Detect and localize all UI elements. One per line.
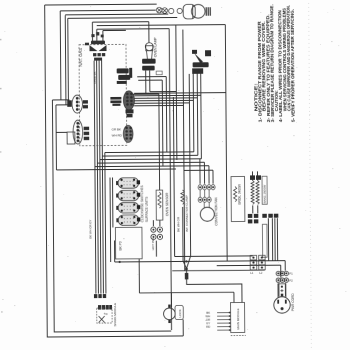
box below switches <box>115 227 142 259</box>
svg-text:PWR CORD: PWR CORD <box>291 293 295 311</box>
resistor zigzag <box>158 192 161 208</box>
terminal bars right of plug <box>206 7 210 16</box>
plug body top right <box>183 4 205 19</box>
wire inner loop <box>52 99 171 332</box>
svg-text:SURFACE UNITS: SURFACE UNITS <box>145 197 149 223</box>
svg-text:WH RD: WH RD <box>112 133 123 137</box>
bundle connector row bottom <box>94 294 106 298</box>
center switch cluster small <box>110 97 121 106</box>
spark module top row <box>98 305 112 310</box>
svg-text:P2: P2 <box>289 279 293 283</box>
bake terminals <box>250 175 261 180</box>
gas valve cluster top center <box>85 32 107 61</box>
svg-text:OVEN SENSOR: OVEN SENSOR <box>165 192 169 216</box>
burner switch 3 <box>118 202 139 213</box>
wire right side drops <box>268 218 277 261</box>
burner switch 1 <box>118 178 139 189</box>
burner switch 2 <box>118 190 139 201</box>
bake element zigzags <box>251 180 259 204</box>
svg-text:CLOCKWISE SWITCHES: CLOCKWISE SWITCHES <box>140 185 144 222</box>
wire latch motor <box>171 293 183 336</box>
wire power cord leads <box>279 283 286 296</box>
left connector oval 1 <box>72 95 83 113</box>
terminal stack B <box>259 255 266 270</box>
svg-text:LOCK: LOCK <box>178 309 182 317</box>
bake label box <box>262 176 267 204</box>
wire fan links <box>200 190 209 208</box>
oven lamp <box>145 43 153 59</box>
pin labels <box>205 311 210 329</box>
wire long bottom link <box>139 258 234 303</box>
wire right verticals <box>158 25 202 330</box>
wire bake stubs <box>252 171 257 213</box>
indicator lights pair 1 <box>151 227 163 240</box>
wire mid-left horizontals <box>52 100 69 133</box>
burner switch terminals and contact dots <box>116 181 118 185</box>
wire top nested lines <box>92 21 225 43</box>
svg-text:INT. CONNECTOR CLAMP: INT. CONNECTOR CLAMP <box>185 195 189 232</box>
cord grommet box <box>278 284 286 297</box>
wire terminal corners <box>281 261 286 278</box>
wire console box <box>225 25 227 261</box>
oven sensor zigzag left center <box>181 190 185 204</box>
fuse on wire <box>185 273 188 279</box>
burner switch 4 <box>118 215 139 226</box>
terminal stack A <box>250 255 257 270</box>
svg-text:OVEN LAMP: OVEN LAMP <box>153 37 157 58</box>
convection fan circle <box>200 207 214 221</box>
svg-text:+o: +o <box>104 312 108 316</box>
svg-text:5- VERIFY PROPER OPERATION AFT: 5- VERIFY PROPER OPERATION AFTER SERVICI… <box>290 9 296 122</box>
svg-text:BROIL 3400W: BROIL 3400W <box>238 184 242 204</box>
wire sensor drop funnel <box>183 206 242 302</box>
spark module dashed box <box>97 308 112 323</box>
svg-text:MAIN MODULE: MAIN MODULE <box>236 308 240 329</box>
convection fan ovals row2 <box>198 197 211 202</box>
wire left verticals <box>55 11 69 170</box>
wire outer border <box>45 4 184 337</box>
scan artifact dotted line right <box>309 0 312 349</box>
svg-text:CONVECTION FAN: CONVECTION FAN <box>214 197 218 226</box>
cord oval row 2 <box>276 278 288 282</box>
spark module marks <box>99 316 105 323</box>
center cluster 2 <box>123 125 133 142</box>
svg-text:RD: RD <box>206 325 210 329</box>
dashed box WT GAS <box>79 44 127 145</box>
left connector oval 2 <box>67 120 83 144</box>
wire top bus lines <box>60 10 177 18</box>
broil zigzag <box>233 187 236 202</box>
svg-text:HOT IND: HOT IND <box>151 237 155 250</box>
svg-text:BAKE 2500W: BAKE 2500W <box>263 185 267 204</box>
latch motor circle <box>164 308 176 320</box>
wire bundle verticals <box>94 60 113 293</box>
convection fan ovals row1 <box>198 185 215 190</box>
cord oval row 1 <box>276 271 288 275</box>
center big cluster (selector) <box>123 91 134 110</box>
wire cluster fanout right <box>134 93 226 106</box>
wire lamp drops <box>130 70 176 94</box>
scan specks left edge <box>0 39 4 313</box>
svg-text:L2: L2 <box>259 271 263 275</box>
broil box tall <box>231 176 245 221</box>
twist connectors top right <box>156 7 182 14</box>
dashed under module <box>231 334 246 336</box>
relay cluster upper right <box>192 50 211 74</box>
narrow box lower right <box>262 224 267 257</box>
svg-text:BK WH OR: BK WH OR <box>176 216 180 232</box>
module pins <box>217 313 231 331</box>
NOTICE text block <box>253 4 296 122</box>
wire gas valve drops <box>92 22 103 41</box>
resistor box right of switches <box>156 190 163 220</box>
junction dots <box>119 260 188 270</box>
power cord plug <box>274 297 291 314</box>
label box on wire <box>156 71 162 75</box>
svg-text:BK WH OR GY: BK WH OR GY <box>88 220 92 239</box>
wire lights drop <box>114 220 160 262</box>
svg-text:BAKE BK: BAKE BK <box>93 72 97 84</box>
wire fan feeds <box>200 159 213 184</box>
main module box <box>231 302 245 332</box>
svg-text:BK P3: BK P3 <box>119 241 123 250</box>
regulator cluster left of lamp <box>117 68 133 84</box>
svg-text:L1: L1 <box>250 271 254 275</box>
svg-text:GR BK: GR BK <box>112 127 121 131</box>
svg-text:P1: P1 <box>289 272 293 276</box>
svg-text:NAT. GAS: NAT. GAS <box>78 48 83 67</box>
quick connects <box>248 214 279 224</box>
svg-text:SPARK MODULE: SPARK MODULE <box>113 303 117 327</box>
latch nameplate <box>175 305 183 319</box>
wire staircase horizontals <box>56 152 213 172</box>
wire mid-bottom horizontals <box>114 229 285 271</box>
